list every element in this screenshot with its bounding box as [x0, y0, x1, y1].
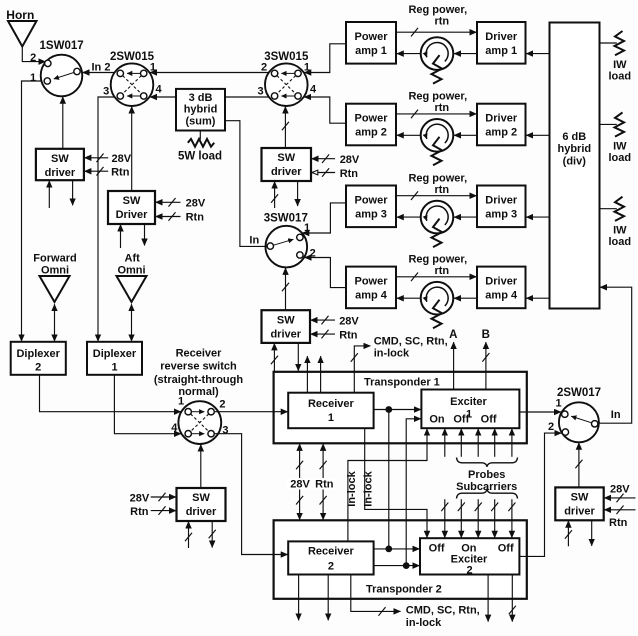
svg-text:6 dB: 6 dB [562, 131, 586, 143]
svg-text:amp 3: amp 3 [485, 209, 517, 221]
svg-text:hybrid: hybrid [184, 104, 218, 116]
svg-text:2: 2 [30, 52, 36, 64]
svg-text:driver: driver [270, 328, 301, 340]
svg-text:hybrid: hybrid [557, 143, 591, 155]
svg-text:Reg power,: Reg power, [408, 172, 467, 184]
svg-text:rtn: rtn [434, 102, 449, 114]
svg-text:28V: 28V [290, 479, 310, 491]
svg-text:28V: 28V [112, 153, 132, 165]
svg-text:amp 3: amp 3 [355, 209, 387, 221]
svg-text:Omni: Omni [117, 265, 145, 277]
svg-text:Power: Power [354, 113, 388, 125]
svg-text:2: 2 [466, 565, 472, 577]
svg-text:In: In [249, 235, 259, 247]
svg-text:Driver: Driver [485, 195, 518, 207]
svg-text:SW: SW [51, 153, 69, 165]
svg-text:Diplexer: Diplexer [16, 348, 60, 360]
svg-text:In-lock: In-lock [346, 470, 358, 506]
svg-text:Power: Power [354, 276, 388, 288]
svg-text:In 2: In 2 [92, 62, 111, 74]
svg-text:3: 3 [257, 86, 263, 98]
svg-text:Receiver: Receiver [308, 546, 355, 558]
svg-text:A: A [449, 329, 457, 341]
svg-text:28V: 28V [340, 154, 360, 166]
svg-text:amp 2: amp 2 [355, 127, 387, 139]
svg-text:Power: Power [354, 195, 388, 207]
svg-text:4: 4 [156, 84, 163, 96]
svg-text:reverse switch: reverse switch [160, 360, 237, 372]
svg-text:driver: driver [186, 506, 217, 518]
svg-text:amp 2: amp 2 [485, 127, 517, 139]
svg-text:In-lock: In-lock [363, 470, 375, 506]
svg-text:1SW017: 1SW017 [40, 40, 84, 52]
svg-text:Forward: Forward [33, 253, 76, 265]
svg-text:amp 4: amp 4 [355, 290, 388, 302]
svg-text:1: 1 [328, 412, 334, 424]
svg-text:Rtn: Rtn [186, 212, 205, 224]
svg-text:rtn: rtn [434, 184, 449, 196]
svg-text:3SW015: 3SW015 [264, 51, 309, 63]
svg-text:Exciter: Exciter [450, 396, 487, 408]
svg-text:2: 2 [261, 62, 267, 74]
svg-text:in-lock: in-lock [374, 348, 410, 360]
svg-text:SW: SW [571, 492, 589, 504]
svg-text:driver: driver [45, 167, 76, 179]
svg-text:1: 1 [304, 222, 310, 234]
svg-text:28V: 28V [186, 198, 206, 210]
svg-text:2: 2 [219, 399, 225, 411]
svg-text:1: 1 [304, 62, 310, 74]
svg-text:IW: IW [613, 225, 627, 237]
svg-text:2SW015: 2SW015 [110, 51, 155, 63]
svg-text:load: load [608, 71, 631, 83]
svg-text:amp 1: amp 1 [355, 45, 387, 57]
svg-text:amp 1: amp 1 [485, 45, 517, 57]
svg-text:Probes: Probes [468, 469, 505, 481]
svg-text:2: 2 [548, 421, 554, 433]
svg-text:28V: 28V [130, 492, 150, 504]
svg-text:2: 2 [35, 361, 41, 373]
svg-text:in-lock: in-lock [406, 617, 442, 629]
svg-text:Reg power,: Reg power, [408, 254, 467, 266]
svg-text:3: 3 [222, 425, 228, 437]
svg-text:Off: Off [481, 413, 497, 425]
svg-text:In: In [611, 409, 621, 421]
svg-text:Driver: Driver [116, 209, 149, 221]
svg-text:Rtn: Rtn [111, 167, 130, 179]
svg-text:(div): (div) [563, 156, 587, 168]
svg-text:Receiver: Receiver [308, 398, 355, 410]
svg-text:IW: IW [613, 140, 627, 152]
svg-text:Rtn: Rtn [340, 168, 359, 180]
svg-text:1: 1 [30, 72, 36, 84]
svg-text:load: load [608, 152, 631, 164]
svg-text:4: 4 [310, 84, 317, 96]
svg-text:3 dB: 3 dB [189, 92, 213, 104]
svg-text:Rtn: Rtn [315, 479, 334, 491]
svg-text:rtn: rtn [434, 265, 449, 277]
svg-text:driver: driver [564, 506, 595, 518]
svg-text:Reg power,: Reg power, [408, 91, 467, 103]
svg-text:Driver: Driver [485, 276, 518, 288]
svg-text:On: On [429, 413, 445, 425]
svg-text:IW: IW [613, 59, 627, 71]
svg-text:2SW017: 2SW017 [557, 387, 601, 399]
svg-text:Horn: Horn [6, 8, 34, 22]
svg-text:1: 1 [111, 361, 117, 373]
svg-text:Receiver: Receiver [176, 348, 223, 360]
svg-text:Rtn: Rtn [609, 517, 628, 529]
svg-text:Off: Off [498, 543, 514, 555]
svg-text:Rtn: Rtn [339, 330, 358, 342]
svg-text:28V: 28V [610, 483, 630, 495]
svg-text:(sum): (sum) [186, 116, 216, 128]
svg-text:Reg power,: Reg power, [408, 4, 467, 16]
svg-text:SW: SW [123, 195, 141, 207]
svg-text:SW: SW [277, 314, 295, 326]
svg-text:28V: 28V [339, 316, 359, 328]
svg-text:3SW017: 3SW017 [264, 213, 308, 225]
svg-text:3: 3 [103, 86, 109, 98]
svg-text:2: 2 [328, 561, 334, 573]
svg-text:CMD, SC, Rtn,: CMD, SC, Rtn, [406, 604, 480, 616]
svg-text:amp 4: amp 4 [485, 290, 518, 302]
svg-text:load: load [608, 236, 631, 248]
svg-text:1: 1 [150, 62, 156, 74]
svg-text:SW: SW [277, 152, 295, 164]
svg-text:5W load: 5W load [178, 150, 222, 162]
svg-text:Power: Power [354, 31, 388, 43]
svg-text:1: 1 [555, 398, 561, 410]
svg-text:(straight-through: (straight-through [154, 374, 243, 386]
svg-text:Subcarriers: Subcarriers [456, 481, 517, 493]
svg-text:Diplexer: Diplexer [93, 348, 137, 360]
svg-text:Aft: Aft [125, 253, 141, 265]
svg-text:normal): normal) [178, 386, 219, 398]
svg-text:CMD, SC, Rtn,: CMD, SC, Rtn, [374, 336, 448, 348]
svg-text:B: B [482, 329, 490, 341]
svg-text:Off: Off [429, 543, 445, 555]
svg-text:Off: Off [453, 413, 469, 425]
svg-text:Driver: Driver [485, 31, 518, 43]
svg-text:Transponder 2: Transponder 2 [366, 583, 442, 595]
svg-text:Rtn: Rtn [130, 506, 149, 518]
svg-text:4: 4 [171, 422, 178, 434]
svg-text:Transponder 1: Transponder 1 [364, 377, 440, 389]
svg-text:Driver: Driver [485, 113, 518, 125]
svg-text:rtn: rtn [434, 15, 449, 27]
svg-text:driver: driver [271, 166, 302, 178]
svg-text:SW: SW [192, 492, 210, 504]
svg-text:Omni: Omni [41, 265, 69, 277]
